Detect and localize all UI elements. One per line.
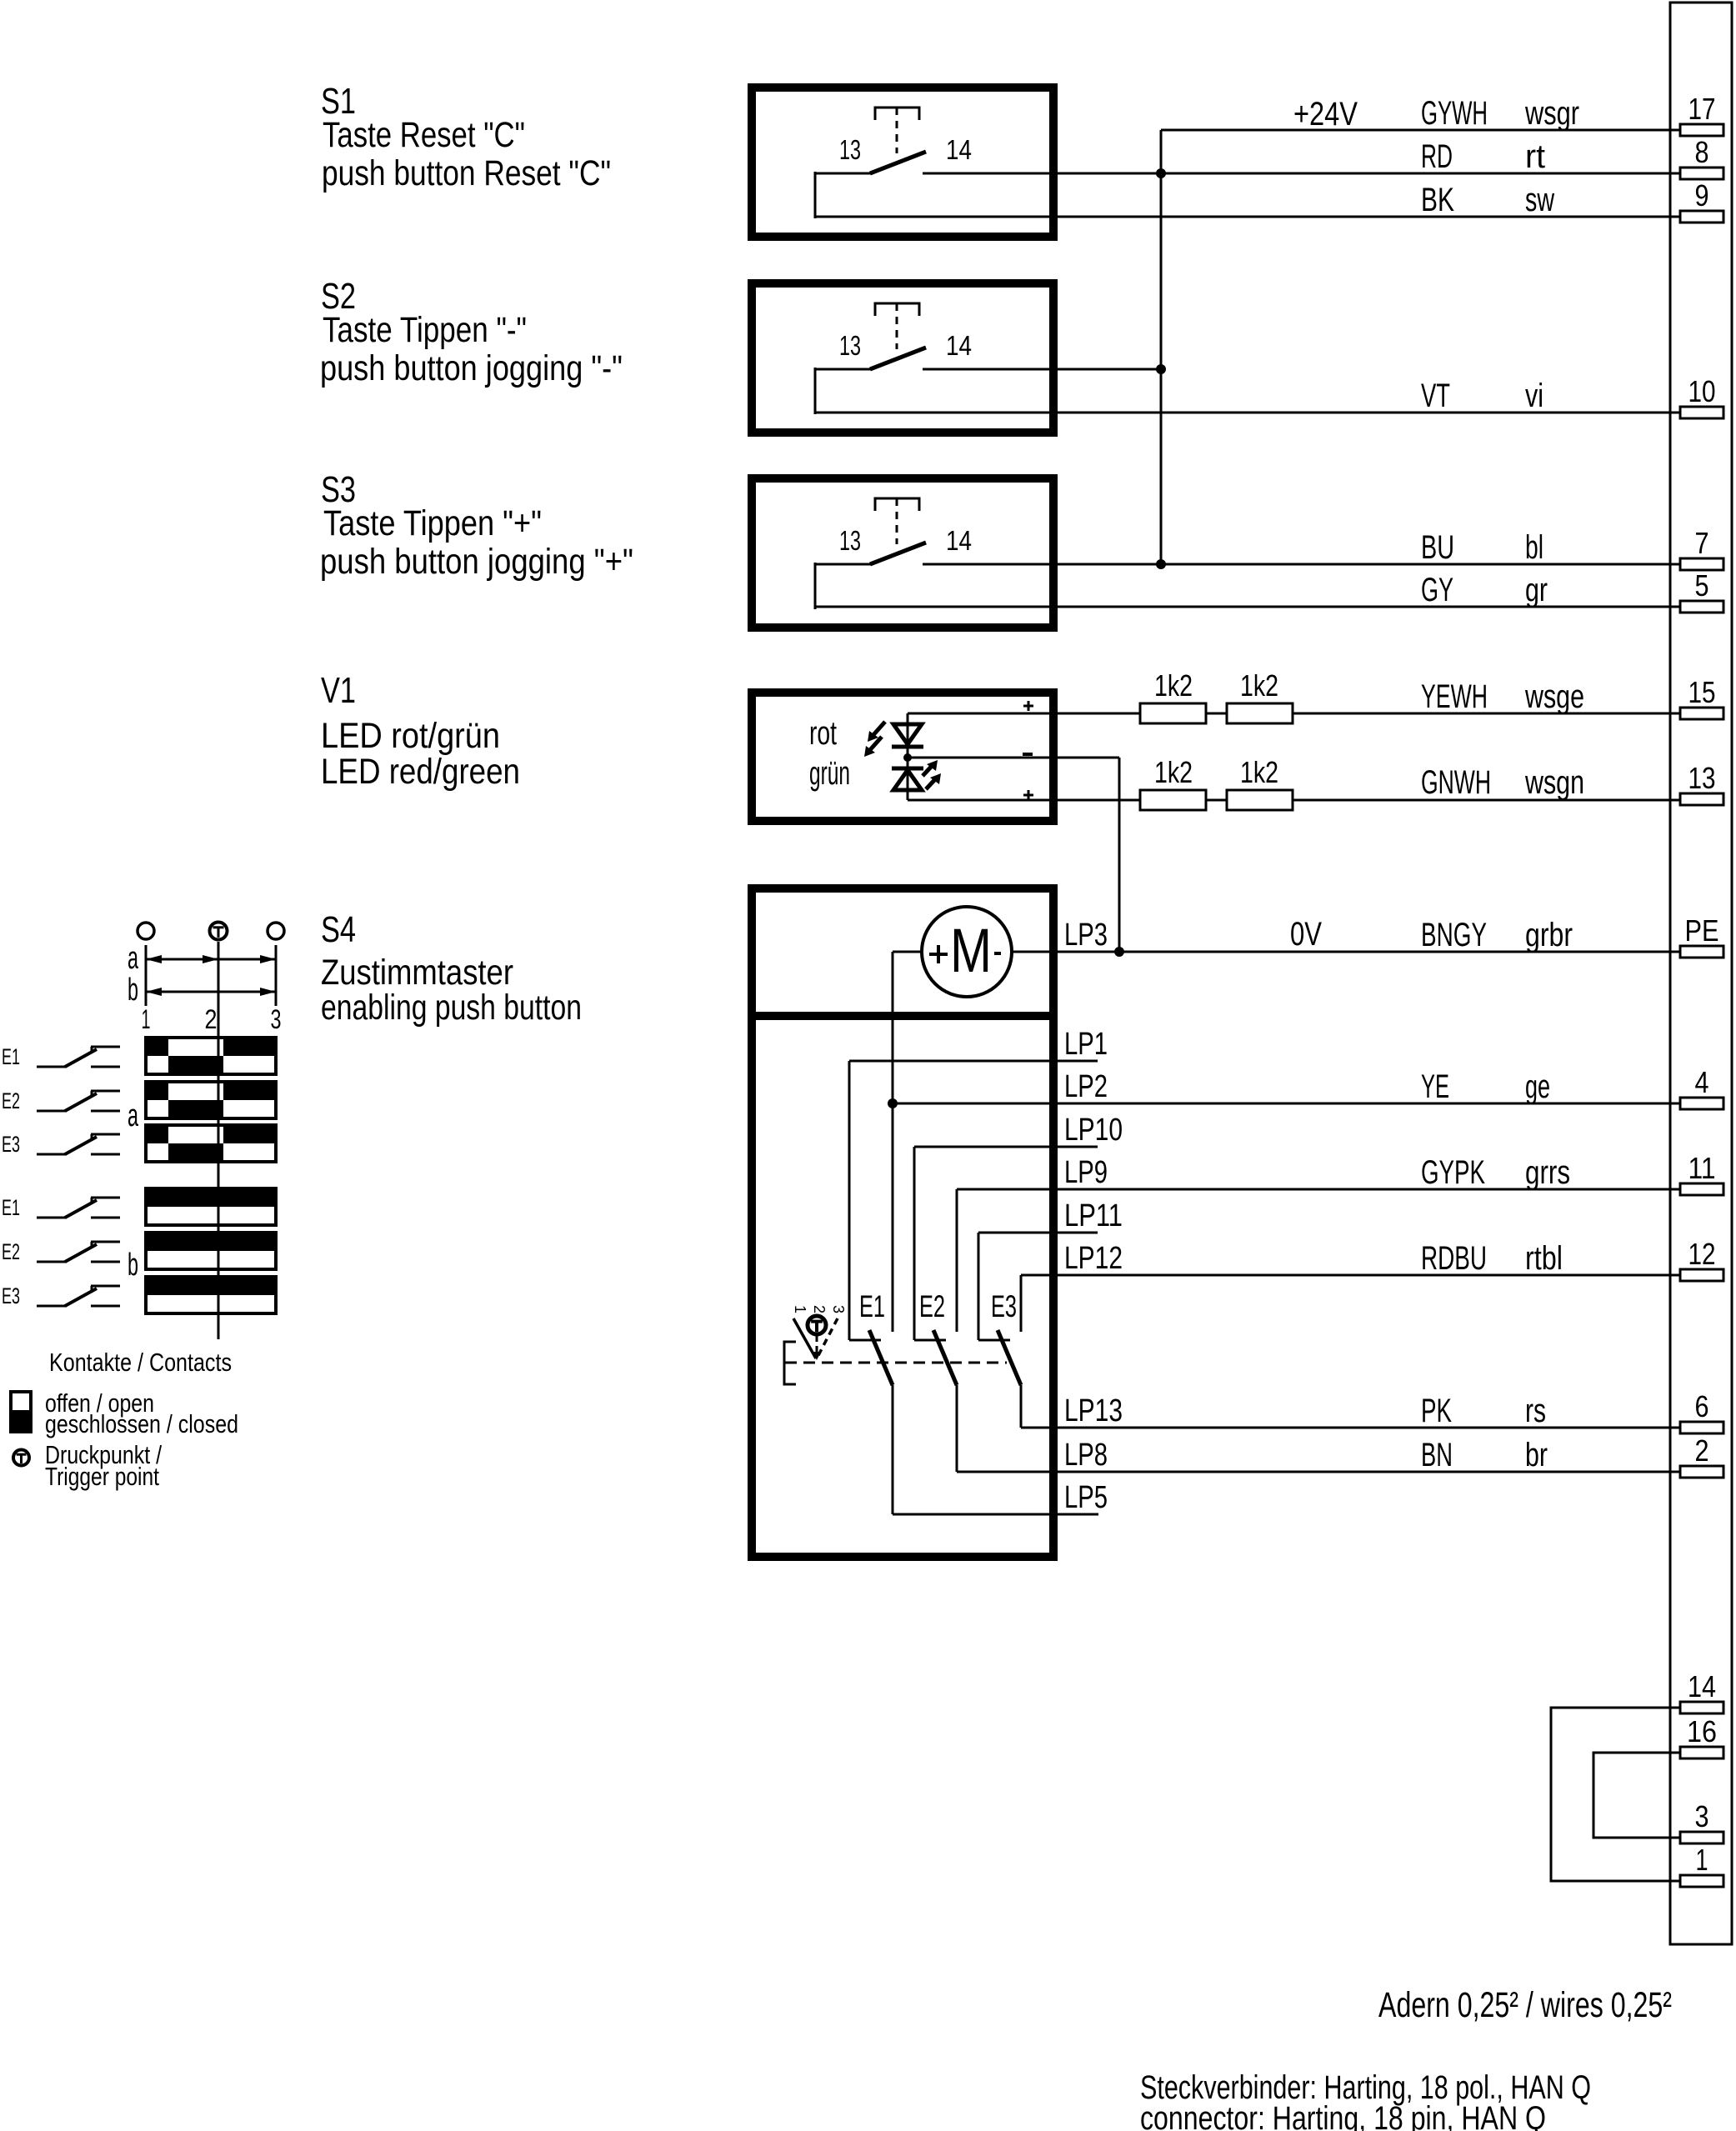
svg-text:GYWH: GYWH	[1421, 95, 1488, 132]
svg-text:10: 10	[1688, 374, 1716, 408]
LED V1 box	[752, 693, 1053, 821]
node junction LP2	[888, 1098, 898, 1108]
S3 actuator dashed link	[896, 498, 898, 544]
legend trigger point symbol	[13, 1450, 29, 1466]
label - cathode	[1023, 753, 1033, 756]
legend closed box	[9, 1412, 33, 1433]
switch symbol E2 (group a)	[37, 1110, 67, 1113]
connector pin 7 terminal	[1680, 558, 1723, 570]
svg-text:ge: ge	[1525, 1068, 1550, 1105]
svg-text:E1: E1	[2, 1195, 20, 1220]
wire LED green + to resistor R3	[1058, 799, 1140, 802]
S1 contact blade	[870, 152, 926, 173]
switch symbol E2 (group b)	[37, 1261, 67, 1263]
svg-text:YE: YE	[1421, 1068, 1449, 1105]
svg-text:LP11: LP11	[1064, 1198, 1123, 1233]
S2 contact blade	[870, 348, 926, 369]
svg-text:E2: E2	[2, 1239, 20, 1264]
wire S1 contact 14 to pin 8	[923, 173, 1680, 175]
connector X1 outline (Harting HAN Q)	[1670, 3, 1732, 1944]
svg-text:LP2: LP2	[1064, 1069, 1108, 1104]
label + red anode	[1023, 705, 1033, 708]
svg-text:13: 13	[839, 525, 861, 556]
position 2 center line	[218, 942, 220, 1339]
travel b dimension line	[146, 991, 276, 993]
connector pin 1 terminal	[1680, 1875, 1723, 1887]
svg-text:12: 12	[1688, 1237, 1716, 1271]
wire LP12 to pin 12	[1021, 1274, 1680, 1277]
svg-text:17: 17	[1688, 92, 1716, 126]
svg-text:9: 9	[1695, 178, 1709, 213]
svg-text:PE: PE	[1685, 913, 1719, 948]
S3 actuator bracket	[875, 498, 919, 511]
svg-text:LP1: LP1	[1064, 1027, 1108, 1062]
cam chart row E3 (group a) outline	[146, 1125, 276, 1162]
connector pin 5 terminal	[1680, 601, 1723, 613]
svg-text:LP13: LP13	[1064, 1393, 1123, 1428]
svg-text:3: 3	[1695, 1799, 1709, 1833]
svg-text:11: 11	[1688, 1151, 1716, 1185]
svg-text:sw: sw	[1525, 182, 1554, 218]
cam chart row E1 (group b) outline	[146, 1188, 276, 1225]
connector pin 11 terminal	[1680, 1183, 1723, 1195]
travel a dimension line	[146, 958, 276, 961]
LED V1 red diode	[893, 724, 922, 744]
svg-text:M: M	[950, 916, 992, 985]
wire R4 to pin 13	[1293, 799, 1680, 802]
svg-text:connector: Harting, 18 pin, HA: connector: Harting, 18 pin, HAN Q	[1140, 2100, 1546, 2131]
wire S2 contact 14 to +24V bus	[923, 368, 1161, 371]
motor + terminal	[929, 953, 948, 956]
+24V wire to pin 17	[1161, 129, 1680, 132]
svg-text:gr: gr	[1525, 572, 1548, 608]
svg-text:13: 13	[839, 134, 861, 165]
connector pin 15 terminal	[1680, 708, 1723, 719]
svg-text:grbr: grbr	[1525, 917, 1573, 953]
svg-text:3: 3	[830, 1305, 847, 1313]
svg-text:bl: bl	[1525, 529, 1543, 566]
svg-text:E2: E2	[919, 1289, 945, 1323]
wire LP9 vertical to contact E2	[956, 1189, 958, 1332]
svg-text:E3: E3	[2, 1283, 20, 1308]
S3 right lead wire (pin 13 side down-loop)	[814, 563, 817, 609]
S3 left lead wire	[815, 563, 872, 566]
trigger point circle (position 2)	[210, 923, 228, 940]
svg-text:LP12: LP12	[1064, 1241, 1123, 1276]
svg-text:LP9: LP9	[1064, 1155, 1108, 1190]
svg-text:V1: V1	[321, 670, 356, 711]
svg-text:2: 2	[811, 1305, 828, 1313]
wire E1 to LP5	[892, 1385, 894, 1514]
svg-text:Taste Tippen "+": Taste Tippen "+"	[323, 503, 542, 543]
svg-text:br: br	[1525, 1437, 1548, 1473]
LED cathode wire -	[908, 757, 1058, 759]
svg-text:Adern 0,25² / wires 0,25²: Adern 0,25² / wires 0,25²	[1378, 1985, 1672, 2025]
S4 motor compartment divider	[748, 1012, 1058, 1020]
connector pin 13 terminal	[1680, 793, 1723, 805]
connector pin 12 terminal	[1680, 1269, 1723, 1281]
S1 actuator dashed link	[896, 108, 898, 153]
connector pin 2 terminal	[1680, 1466, 1723, 1478]
wire S3 contact 13 loop to pin 5	[815, 606, 1680, 608]
S1 actuator bracket	[875, 108, 919, 120]
push button S2 box	[752, 283, 1053, 433]
svg-text:LP8: LP8	[1064, 1438, 1108, 1473]
wire motor left lead	[893, 951, 922, 953]
svg-text:6: 6	[1695, 1389, 1709, 1423]
svg-text:rot: rot	[809, 715, 837, 752]
S1 right lead wire (pin 13 side down-loop)	[814, 172, 817, 218]
cam chart row E3 (group a): black=closed segments	[146, 1125, 168, 1143]
svg-text:14: 14	[946, 330, 972, 361]
svg-text:2: 2	[205, 1004, 218, 1034]
svg-text:15: 15	[1688, 675, 1716, 709]
node junction S2/+24V	[1156, 364, 1166, 374]
svg-text:GNWH: GNWH	[1421, 764, 1491, 801]
svg-text:1k2: 1k2	[1154, 668, 1193, 703]
svg-text:E3: E3	[2, 1132, 20, 1157]
svg-text:1k2: 1k2	[1240, 755, 1278, 789]
svg-text:GYPK: GYPK	[1421, 1154, 1485, 1191]
wire E3 to LP13 / pin 6	[1020, 1385, 1023, 1428]
LED node junction	[903, 753, 912, 762]
wire R2 to pin 15	[1293, 713, 1680, 715]
svg-text:7: 7	[1695, 526, 1709, 560]
svg-text:5: 5	[1695, 568, 1709, 603]
resistor R4 1k2	[1227, 790, 1293, 810]
connector pin 3 terminal	[1680, 1832, 1723, 1843]
LED V1 green emission arrows	[926, 778, 937, 789]
svg-text:GY: GY	[1421, 572, 1453, 608]
LED string vertical wire	[907, 713, 909, 800]
S4 position 3 dashed line	[817, 1318, 838, 1358]
svg-text:BK: BK	[1421, 182, 1454, 218]
svg-text:Taste Tippen "-": Taste Tippen "-"	[323, 310, 527, 350]
connector pin 14 terminal	[1680, 1702, 1723, 1713]
contact E1 blade	[869, 1330, 893, 1385]
svg-text:1: 1	[792, 1305, 808, 1313]
svg-text:grrs: grrs	[1525, 1154, 1570, 1191]
wire LP1 stub	[849, 1060, 1098, 1063]
wire LP12 vertical to contact E3	[1020, 1275, 1023, 1332]
svg-text:BU: BU	[1421, 529, 1454, 566]
wire R1 to R2	[1206, 713, 1227, 715]
svg-text:1: 1	[142, 1004, 151, 1034]
svg-text:1k2: 1k2	[1240, 668, 1278, 703]
svg-text:14: 14	[946, 134, 972, 165]
switch symbol E3 (group a)	[37, 1153, 67, 1156]
svg-text:+24V: +24V	[1293, 96, 1358, 133]
svg-text:a: a	[128, 941, 139, 976]
svg-text:YEWH: YEWH	[1421, 678, 1488, 715]
svg-text:geschlossen / closed: geschlossen / closed	[45, 1409, 238, 1438]
resistor R2 1k2	[1227, 703, 1293, 723]
switch symbol E3 (group b)	[37, 1305, 67, 1308]
svg-text:3: 3	[271, 1004, 282, 1034]
wire S3 contact 14 to pin 7	[923, 563, 1680, 566]
svg-text:grün: grün	[809, 755, 850, 792]
cam chart row E1 (group a): black=closed segments	[146, 1038, 168, 1056]
wire E2 to LP8 / pin 2	[956, 1385, 958, 1472]
svg-text:BNGY: BNGY	[1421, 917, 1487, 953]
connector pin 10 terminal	[1680, 407, 1723, 418]
S2 left lead wire	[815, 368, 872, 371]
wire LP11 stub	[978, 1232, 1098, 1234]
cam chart row E2 (group a) outline	[146, 1082, 276, 1118]
svg-text:E2: E2	[2, 1088, 20, 1113]
connector pin 9 terminal	[1680, 211, 1723, 223]
S1 left lead wire	[815, 173, 872, 175]
connector pin 16 terminal	[1680, 1747, 1723, 1758]
svg-text:13: 13	[839, 330, 861, 361]
+24V bus vertical wire	[1160, 130, 1163, 564]
svg-text:1: 1	[1696, 1843, 1708, 1877]
wire LP1 vertical to contact E1	[848, 1061, 851, 1340]
svg-text:RD: RD	[1421, 138, 1453, 175]
wire LP9 to pin 11	[957, 1188, 1680, 1191]
S3 contact blade	[870, 543, 926, 564]
svg-text:push button jogging "-": push button jogging "-"	[320, 348, 623, 388]
svg-text:wsgn: wsgn	[1524, 764, 1584, 801]
svg-text:RDBU: RDBU	[1421, 1240, 1487, 1277]
svg-text:push button jogging "+": push button jogging "+"	[320, 542, 633, 582]
wire LED+ to resistor R1	[1058, 713, 1140, 715]
svg-text:b: b	[128, 1248, 138, 1283]
wire S2 contact 13 loop to pin 10	[815, 412, 1680, 414]
svg-text:PK: PK	[1421, 1393, 1452, 1429]
svg-text:16: 16	[1687, 1714, 1717, 1748]
svg-text:13: 13	[1688, 761, 1716, 795]
connector pin 6 terminal	[1680, 1422, 1723, 1433]
svg-text:1k2: 1k2	[1154, 755, 1193, 789]
cam chart row E1 (group a) outline	[146, 1038, 276, 1074]
svg-text:E1: E1	[2, 1044, 20, 1069]
wire LED cathode to 0V	[1058, 757, 1119, 759]
svg-text:14: 14	[946, 525, 972, 556]
svg-text:2: 2	[1695, 1433, 1709, 1468]
label + green anode	[1023, 794, 1033, 797]
contact E3 blade	[998, 1330, 1021, 1385]
S4 position 2 dashed line	[816, 1336, 818, 1353]
cam chart row E1 (group b): black=closed segments	[146, 1188, 276, 1207]
LED anode wire + (red)	[908, 713, 1058, 715]
svg-text:BN: BN	[1421, 1437, 1453, 1473]
wire S1 contact 13 loop to pin 9	[815, 216, 1680, 218]
position 1 circle	[138, 923, 154, 939]
push button S3 box	[752, 478, 1053, 628]
svg-text:S4: S4	[321, 909, 356, 950]
svg-text:E3: E3	[991, 1289, 1017, 1323]
S4 trigger point symbol	[808, 1316, 826, 1334]
svg-text:4: 4	[1695, 1065, 1709, 1099]
svg-text:a: a	[128, 1098, 139, 1133]
node junction S3/+24V	[1156, 559, 1166, 569]
LED V1 red emission arrows	[872, 722, 885, 737]
motor - terminal	[994, 952, 1001, 955]
svg-text:LED rot/grün: LED rot/grün	[321, 716, 500, 756]
svg-text:LP5: LP5	[1064, 1480, 1108, 1515]
jumper wire pin 16 to pin 3	[1593, 1753, 1680, 1838]
svg-text:0V: 0V	[1290, 916, 1322, 953]
wire motor to LP2/E1 vertical	[892, 952, 894, 1332]
S4 actuator travel bracket	[784, 1342, 796, 1384]
wire motor right lead LP3	[1012, 951, 1680, 953]
svg-text:vi: vi	[1525, 378, 1543, 414]
connector pin 17 terminal	[1680, 124, 1723, 136]
position 3 tick line	[275, 945, 278, 1006]
contact E3 fixed bar	[978, 1339, 1010, 1342]
motor M1 circle	[922, 907, 1012, 997]
svg-text:wsgr: wsgr	[1524, 95, 1579, 132]
LED anode wire + (green)	[908, 799, 1058, 802]
contact E1 fixed bar	[849, 1339, 881, 1342]
legend open box	[11, 1392, 31, 1412]
svg-text:rtbl: rtbl	[1525, 1240, 1563, 1277]
node junction S1/+24V	[1156, 168, 1166, 178]
svg-text:VT: VT	[1421, 378, 1450, 414]
wire LP10 stub	[914, 1146, 1098, 1148]
contact E2 blade	[933, 1330, 957, 1385]
connector pin 4 terminal	[1680, 1098, 1723, 1109]
contact E2 fixed bar	[914, 1339, 946, 1342]
S4 position 1 line	[793, 1318, 816, 1358]
svg-text:push button Reset "C": push button Reset "C"	[322, 153, 611, 193]
position 1 tick line	[145, 945, 148, 1006]
S4 actuator dashed travel line	[785, 1362, 1007, 1364]
svg-text:Zustimmtaster: Zustimmtaster	[321, 953, 513, 993]
svg-text:LED red/green: LED red/green	[321, 752, 520, 792]
cam chart row E2 (group b) outline	[146, 1233, 276, 1269]
svg-text:LP10: LP10	[1064, 1113, 1123, 1148]
svg-text:Trigger point: Trigger point	[45, 1462, 159, 1491]
wire LP11 vertical to contact E3	[978, 1233, 980, 1340]
cam chart row E2 (group a): black=closed segments	[146, 1082, 168, 1100]
svg-text:LP3: LP3	[1064, 918, 1108, 953]
cam chart row E3 (group b): black=closed segments	[146, 1277, 276, 1295]
svg-text:8: 8	[1695, 135, 1709, 169]
svg-text:b: b	[128, 973, 138, 1008]
resistor R3 1k2	[1140, 790, 1206, 810]
connector pin PE terminal	[1680, 946, 1723, 958]
cam chart row E3 (group b) outline	[146, 1277, 276, 1313]
enabling switch S4 box	[752, 888, 1053, 1557]
wire LP10 vertical to contact E2	[913, 1147, 916, 1340]
svg-text:Kontakte / Contacts: Kontakte / Contacts	[49, 1348, 232, 1377]
S2 right lead wire (pin 13 side down-loop)	[814, 368, 817, 414]
jumper wire pin 14 to pin 1	[1551, 1708, 1680, 1881]
wire R3 to R4	[1206, 799, 1227, 802]
position 3 circle	[268, 923, 284, 939]
push button S1 box	[752, 88, 1053, 237]
svg-text:14: 14	[1688, 1669, 1716, 1703]
LED V1 green diode	[892, 767, 923, 771]
switch symbol E1 (group a)	[37, 1066, 67, 1068]
svg-text:wsge: wsge	[1524, 678, 1584, 715]
svg-text:rs: rs	[1525, 1393, 1546, 1429]
svg-text:E1: E1	[859, 1289, 885, 1323]
node junction LED cathode / 0V	[1114, 947, 1124, 957]
connector pin 8 terminal	[1680, 168, 1723, 179]
wire LP2 to pin 4	[893, 1103, 1680, 1105]
S2 actuator dashed link	[896, 303, 898, 349]
cam chart row E2 (group b): black=closed segments	[146, 1233, 276, 1251]
switch symbol E1 (group b)	[37, 1217, 67, 1219]
svg-text:rt: rt	[1525, 138, 1545, 175]
S2 actuator bracket	[875, 303, 919, 316]
svg-text:Taste Reset "C": Taste Reset "C"	[323, 115, 525, 155]
resistor R1 1k2	[1140, 703, 1206, 723]
svg-text:enabling push button: enabling push button	[321, 988, 582, 1028]
